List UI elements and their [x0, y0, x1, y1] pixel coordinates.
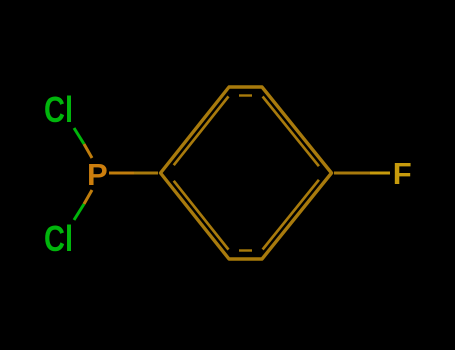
svg-text:P: P	[87, 157, 108, 192]
bond P to bottom Cl (green/orange two-tone)	[74, 204, 84, 220]
bond P to top Cl (green/orange two-tone)	[74, 128, 84, 144]
bond ring to F	[334, 172, 370, 175]
double bond inner line lower-right	[263, 180, 319, 250]
double bond inner line top	[239, 94, 252, 96]
double bond inner line upper-left	[174, 96, 229, 165]
double bond inner line upper-right	[263, 97, 319, 167]
svg-text:F: F	[393, 156, 412, 191]
svg-text:Cl: Cl	[44, 218, 73, 259]
double bond inner line bottom	[239, 249, 252, 251]
svg-text:Cl: Cl	[44, 89, 73, 130]
bond P to ring (orange to goldenrod)	[109, 172, 134, 175]
benzene ring outer hexagon	[161, 87, 332, 259]
double bond inner line lower-left	[174, 181, 229, 250]
